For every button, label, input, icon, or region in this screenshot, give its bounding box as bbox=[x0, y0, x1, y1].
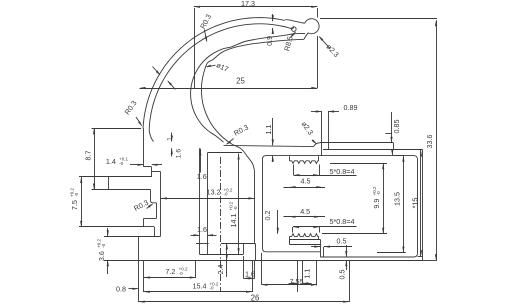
tab left edge bbox=[108, 177, 110, 190]
svg-text:1.1: 1.1 bbox=[264, 125, 273, 135]
dim 26 line bbox=[139, 301, 350, 303]
ramp bump o2.3 bbox=[314, 143, 320, 147]
middle cavity left wall inner bbox=[207, 153, 209, 255]
cavity circle o17 inner R8.5 bbox=[201, 39, 303, 172]
lip step down x393.5 bbox=[393, 143, 395, 149]
dim line 5*0.8 no2 bbox=[293, 226, 357, 228]
notch wall x321.8 bbox=[321, 112, 323, 156]
ext line x302.4 bbox=[302, 260, 304, 285]
svg-text:1: 1 bbox=[166, 137, 173, 141]
svg-text:26: 26 bbox=[251, 294, 260, 303]
foot left edge bbox=[138, 236, 140, 260]
ext line y133.4 bbox=[386, 133, 392, 135]
svg-text:13.2: 13.2 bbox=[207, 188, 221, 197]
arrow bbox=[140, 87, 146, 89]
svg-text:R0.3: R0.3 bbox=[132, 198, 150, 213]
ext line x252 bbox=[252, 260, 254, 292]
notch bottom y227 bbox=[144, 226, 155, 228]
middle cavity left wall outer bbox=[199, 148, 201, 254]
arrow bbox=[435, 254, 437, 260]
ext line x143.5 bottom bbox=[143, 260, 145, 292]
ext line x297.7 bbox=[297, 260, 299, 292]
middle cavity right wall bbox=[254, 172, 256, 243]
floor step x243.3 bbox=[243, 243, 245, 254]
svg-text:8.7: 8.7 bbox=[83, 151, 92, 161]
dim 14.1 line bbox=[238, 154, 240, 255]
inner wall arc bbox=[149, 24, 293, 131]
dim 1.4 seg bbox=[130, 164, 143, 166]
leader arrow bbox=[225, 141, 231, 145]
ext serr1 right bbox=[319, 165, 321, 176]
dim line 5*0.8 no1 bbox=[294, 175, 357, 177]
svg-text:0.5: 0.5 bbox=[337, 270, 346, 280]
dim 1 seg bbox=[171, 133, 173, 142]
ext 2.4 left seg bbox=[196, 243, 209, 245]
left edge upper bbox=[143, 128, 145, 167]
dim 15 line bbox=[420, 149, 422, 257]
svg-text:33.6: 33.6 bbox=[425, 135, 434, 149]
ext for 3.6 (foot top) bbox=[104, 236, 138, 238]
leader arrow bbox=[312, 139, 317, 144]
svg-text:R0.3: R0.3 bbox=[232, 123, 250, 138]
notch wall x154.4 bbox=[154, 227, 156, 236]
slot step y218.5 bbox=[144, 218, 157, 220]
ext y257 right bbox=[418, 256, 423, 258]
dim 1.6 line bbox=[243, 278, 255, 280]
svg-text:1.1: 1.1 bbox=[302, 269, 311, 279]
dim 0.9 lower seg bbox=[272, 28, 274, 34]
svg-text:0.89: 0.89 bbox=[344, 103, 358, 112]
arrow bbox=[272, 28, 274, 34]
svg-text:3.6: 3.6 bbox=[97, 251, 106, 261]
dim 1.6c seg bbox=[191, 235, 200, 237]
ext line y233.7 bbox=[322, 233, 387, 235]
floor step x320.3 bbox=[320, 240, 322, 257]
wall arrow leader b bbox=[168, 81, 175, 89]
svg-text:-0: -0 bbox=[224, 192, 228, 197]
leader o2.3 ramp bbox=[313, 141, 316, 144]
dim 7.55 line bbox=[262, 284, 317, 286]
cavity circle o17 outer bbox=[191, 33, 305, 142]
ledge bottom y244 bbox=[289, 244, 320, 246]
centerline middle cavity bbox=[220, 157, 222, 292]
svg-text:14.1: 14.1 bbox=[229, 214, 238, 228]
svg-text:1.4: 1.4 bbox=[106, 157, 116, 166]
slot wall x150.5 bbox=[150, 190, 152, 201]
dim 3.6 seg bbox=[107, 228, 109, 236]
wall arrow leader a bbox=[153, 67, 160, 75]
inner wall top y171.5 bbox=[151, 171, 160, 173]
ext line x349.2 bbox=[349, 260, 351, 302]
serr2 right tick bbox=[318, 236, 320, 239]
dim 25 line bbox=[140, 88, 318, 90]
notch wall x328 bbox=[328, 112, 330, 150]
right cavity right wall x417.5 bbox=[417, 160, 419, 254]
dim 0.8 seg bbox=[129, 288, 138, 290]
tab bottom y189.5 + ext bbox=[92, 189, 151, 191]
ext line y155.8 bbox=[393, 155, 404, 157]
dim 0.5 seg2 bbox=[324, 246, 352, 248]
ext line x317 low bbox=[316, 260, 318, 285]
svg-text:17.3: 17.3 bbox=[241, 0, 255, 8]
dim 4.5 line no1 bbox=[284, 187, 326, 189]
right cavity left wall + floor left bbox=[263, 159, 321, 252]
slot wall x156.5 bbox=[156, 203, 158, 219]
ext for 3.6 bottom bbox=[104, 260, 138, 262]
arrow bbox=[311, 87, 317, 89]
ext line x194 bbox=[194, 8, 196, 88]
ext line y226.9 bbox=[79, 226, 144, 228]
ext line x261.5 bbox=[261, 253, 263, 285]
dim 17.3 line bbox=[194, 6, 317, 8]
tab top y177 + ext bbox=[79, 176, 151, 178]
step x151.4 bbox=[151, 167, 153, 177]
svg-text:7.5: 7.5 bbox=[70, 200, 79, 210]
dim 1.1 seg2 bbox=[272, 156, 274, 162]
dim 1.1b seg bbox=[289, 283, 298, 285]
dim 1.1 seg bbox=[272, 118, 274, 145]
inner wall tail bbox=[149, 131, 153, 142]
ext serr2 left bbox=[292, 227, 294, 233]
ext line y128.4 bbox=[92, 128, 141, 130]
svg-text:ø2.3: ø2.3 bbox=[300, 120, 316, 137]
dim 7.2 line bbox=[144, 277, 196, 279]
svg-text:25: 25 bbox=[236, 76, 245, 85]
lip bulb o2.3 bbox=[305, 19, 319, 34]
dim 2.4 line bbox=[226, 243, 228, 277]
dim 7.5 line bbox=[81, 177, 83, 227]
svg-text:1.6: 1.6 bbox=[197, 172, 207, 181]
svg-text:5*0.8=4: 5*0.8=4 bbox=[330, 217, 355, 226]
svg-text:-0: -0 bbox=[101, 243, 106, 247]
ext line y19 bbox=[320, 18, 437, 20]
serration strip 1 5*0.8=4 bbox=[289, 161, 318, 164]
leader R8.5 bbox=[290, 32, 295, 37]
svg-text:1.6: 1.6 bbox=[176, 149, 183, 159]
svg-text:-0: -0 bbox=[210, 286, 214, 291]
svg-text:7.2: 7.2 bbox=[165, 267, 175, 276]
dim 4.5 line no2 bbox=[284, 216, 326, 218]
right cavity floor right y257 bbox=[320, 253, 417, 257]
svg-text:ø17: ø17 bbox=[215, 60, 230, 73]
ext line y252.6 bbox=[377, 252, 406, 254]
dim 0.89 seg bbox=[311, 111, 322, 113]
right outer edge bbox=[422, 149, 424, 260]
dim 0.9 upper seg bbox=[272, 14, 274, 21]
ext serr1 left bbox=[293, 165, 295, 176]
dim text 7.2 bbox=[165, 267, 188, 276]
serration strip 2 5*0.8=4 bbox=[289, 234, 318, 237]
ledge bottom y244.2 bbox=[289, 244, 320, 246]
ext line x243.3 bbox=[243, 256, 245, 278]
arrow bbox=[272, 15, 274, 21]
dim 0.85 seg2 bbox=[392, 151, 394, 155]
left edge mid bbox=[143, 219, 145, 228]
floor step x323.9 bbox=[323, 247, 325, 257]
ledge left edge bbox=[289, 240, 291, 245]
dim 8.7 line bbox=[94, 128, 96, 189]
svg-text:7.55: 7.55 bbox=[290, 277, 304, 286]
dim text 14.1 bbox=[229, 201, 238, 227]
svg-text:0.2: 0.2 bbox=[263, 211, 272, 221]
ext line x254.9 low bbox=[254, 261, 256, 278]
svg-text:0.85: 0.85 bbox=[392, 120, 401, 134]
dim 0.2 leader bbox=[277, 210, 279, 234]
outer profile arc bbox=[143, 18, 285, 129]
dim 1.1b seg2 bbox=[302, 283, 311, 285]
svg-text:13.5: 13.5 bbox=[392, 192, 401, 206]
serr2 left tick bbox=[289, 236, 291, 239]
arrow bbox=[435, 20, 437, 26]
ext line x317.3 lower bbox=[317, 36, 319, 88]
leader o2.3 bbox=[320, 37, 331, 49]
leader arrow bbox=[138, 121, 142, 127]
middle cavity top y152.6 bbox=[208, 152, 243, 154]
svg-text:1.6: 1.6 bbox=[197, 225, 207, 234]
dim text 7.5 bbox=[70, 188, 79, 211]
svg-text:9.9: 9.9 bbox=[372, 199, 381, 209]
svg-text:5*0.8=4: 5*0.8=4 bbox=[330, 167, 355, 176]
svg-text:*15: *15 bbox=[410, 198, 419, 209]
outer neck bbox=[285, 20, 304, 24]
svg-text:4.5: 4.5 bbox=[300, 207, 310, 216]
ext serr2 right bbox=[319, 227, 321, 233]
dim 13.2 line bbox=[161, 198, 254, 200]
svg-text:-0: -0 bbox=[119, 161, 123, 166]
svg-text:R0.3: R0.3 bbox=[123, 99, 139, 117]
foot top y236.3 bbox=[138, 236, 160, 238]
top edge right y149.3 bbox=[323, 149, 422, 151]
leader arrow bbox=[205, 65, 211, 68]
left wall top fillet bbox=[263, 156, 267, 160]
svg-text:0.8: 0.8 bbox=[116, 284, 126, 293]
arrow bbox=[194, 6, 200, 8]
dim 9.9 line bbox=[383, 163, 385, 233]
svg-text:15.4: 15.4 bbox=[193, 282, 207, 291]
dim text 9.9 bbox=[372, 186, 381, 209]
arrow bbox=[311, 6, 317, 8]
ext line x138.3 bottom bbox=[138, 260, 140, 302]
step y166.8 bbox=[144, 166, 152, 168]
inner wall x160.5 bbox=[160, 172, 162, 237]
ext line y163.3 bbox=[330, 163, 387, 165]
leader R0.3 bbox=[204, 30, 207, 42]
svg-text:-0: -0 bbox=[179, 271, 183, 276]
svg-text:0.9: 0.9 bbox=[265, 36, 274, 46]
wall arrow b bbox=[167, 80, 172, 85]
leader R0.3 slot bbox=[147, 204, 153, 208]
bottom edge bbox=[138, 260, 422, 262]
dim text 13.2 bbox=[207, 187, 233, 196]
serration ledge base y239.7 bbox=[289, 239, 320, 241]
dim 0.85 seg bbox=[391, 112, 393, 142]
serr1 left tick bbox=[289, 156, 291, 161]
dim 0.5b seg2 bbox=[346, 260, 348, 270]
inner lip knob bbox=[292, 27, 297, 32]
dim 3.6 seg2 bbox=[107, 260, 109, 274]
ext line x317.3 top bbox=[317, 8, 319, 18]
dim 15.4 line bbox=[144, 291, 252, 293]
upper lip top y143 bbox=[320, 142, 394, 144]
dim 1.4 seg2 bbox=[152, 164, 162, 166]
ext line x195.8 bbox=[195, 261, 197, 278]
bulb underside join bbox=[304, 33, 308, 40]
svg-text:1.6: 1.6 bbox=[245, 270, 255, 279]
leader arrow bbox=[205, 36, 207, 42]
svg-text:-0: -0 bbox=[233, 206, 238, 210]
right cavity top y155.6 bbox=[266, 156, 418, 160]
dim 0.5 seg bbox=[311, 246, 320, 248]
long top edge bbox=[224, 145, 314, 146]
svg-text:0.5: 0.5 bbox=[337, 237, 347, 246]
serr1 right tick bbox=[318, 156, 320, 161]
leader arrow bbox=[148, 203, 154, 207]
dim 0.5b seg bbox=[346, 245, 348, 257]
wall arrow a bbox=[156, 71, 161, 76]
dim 1 seg2 bbox=[171, 148, 173, 156]
ledge left edge bbox=[289, 239, 291, 244]
leader R0.3 cusp bbox=[228, 139, 234, 144]
svg-text:4.5: 4.5 bbox=[301, 177, 311, 186]
svg-text:R8.5: R8.5 bbox=[282, 35, 295, 52]
dim 0.89 seg2 bbox=[328, 111, 339, 113]
floor step y243.4 + ext bbox=[221, 243, 255, 245]
leader R0.3 left bbox=[136, 117, 142, 125]
middle cavity floor y254.2 bbox=[200, 254, 244, 256]
svg-text:2.4: 2.4 bbox=[216, 265, 225, 275]
dim 1.6c seg2 bbox=[207, 235, 217, 237]
leader o17 bbox=[207, 65, 216, 67]
leader arrow bbox=[291, 31, 296, 36]
dim text 15.4 bbox=[193, 281, 219, 290]
dim 33.6 line bbox=[436, 20, 438, 260]
wall x255.3 to bottom bbox=[255, 243, 257, 260]
svg-text:-0: -0 bbox=[376, 191, 381, 195]
serration ledge base y239.4 bbox=[289, 239, 320, 241]
dim text 1.4 bbox=[106, 157, 129, 166]
dim 13.5 line bbox=[403, 156, 405, 253]
ext 33.6 bottom bbox=[422, 260, 437, 262]
dim text 3.6 bbox=[97, 239, 106, 262]
dim 1.6b leader bbox=[200, 149, 202, 173]
slot corner R0.3 bbox=[151, 201, 157, 203]
leader arrow bbox=[318, 36, 323, 41]
svg-text:-0: -0 bbox=[74, 192, 79, 196]
